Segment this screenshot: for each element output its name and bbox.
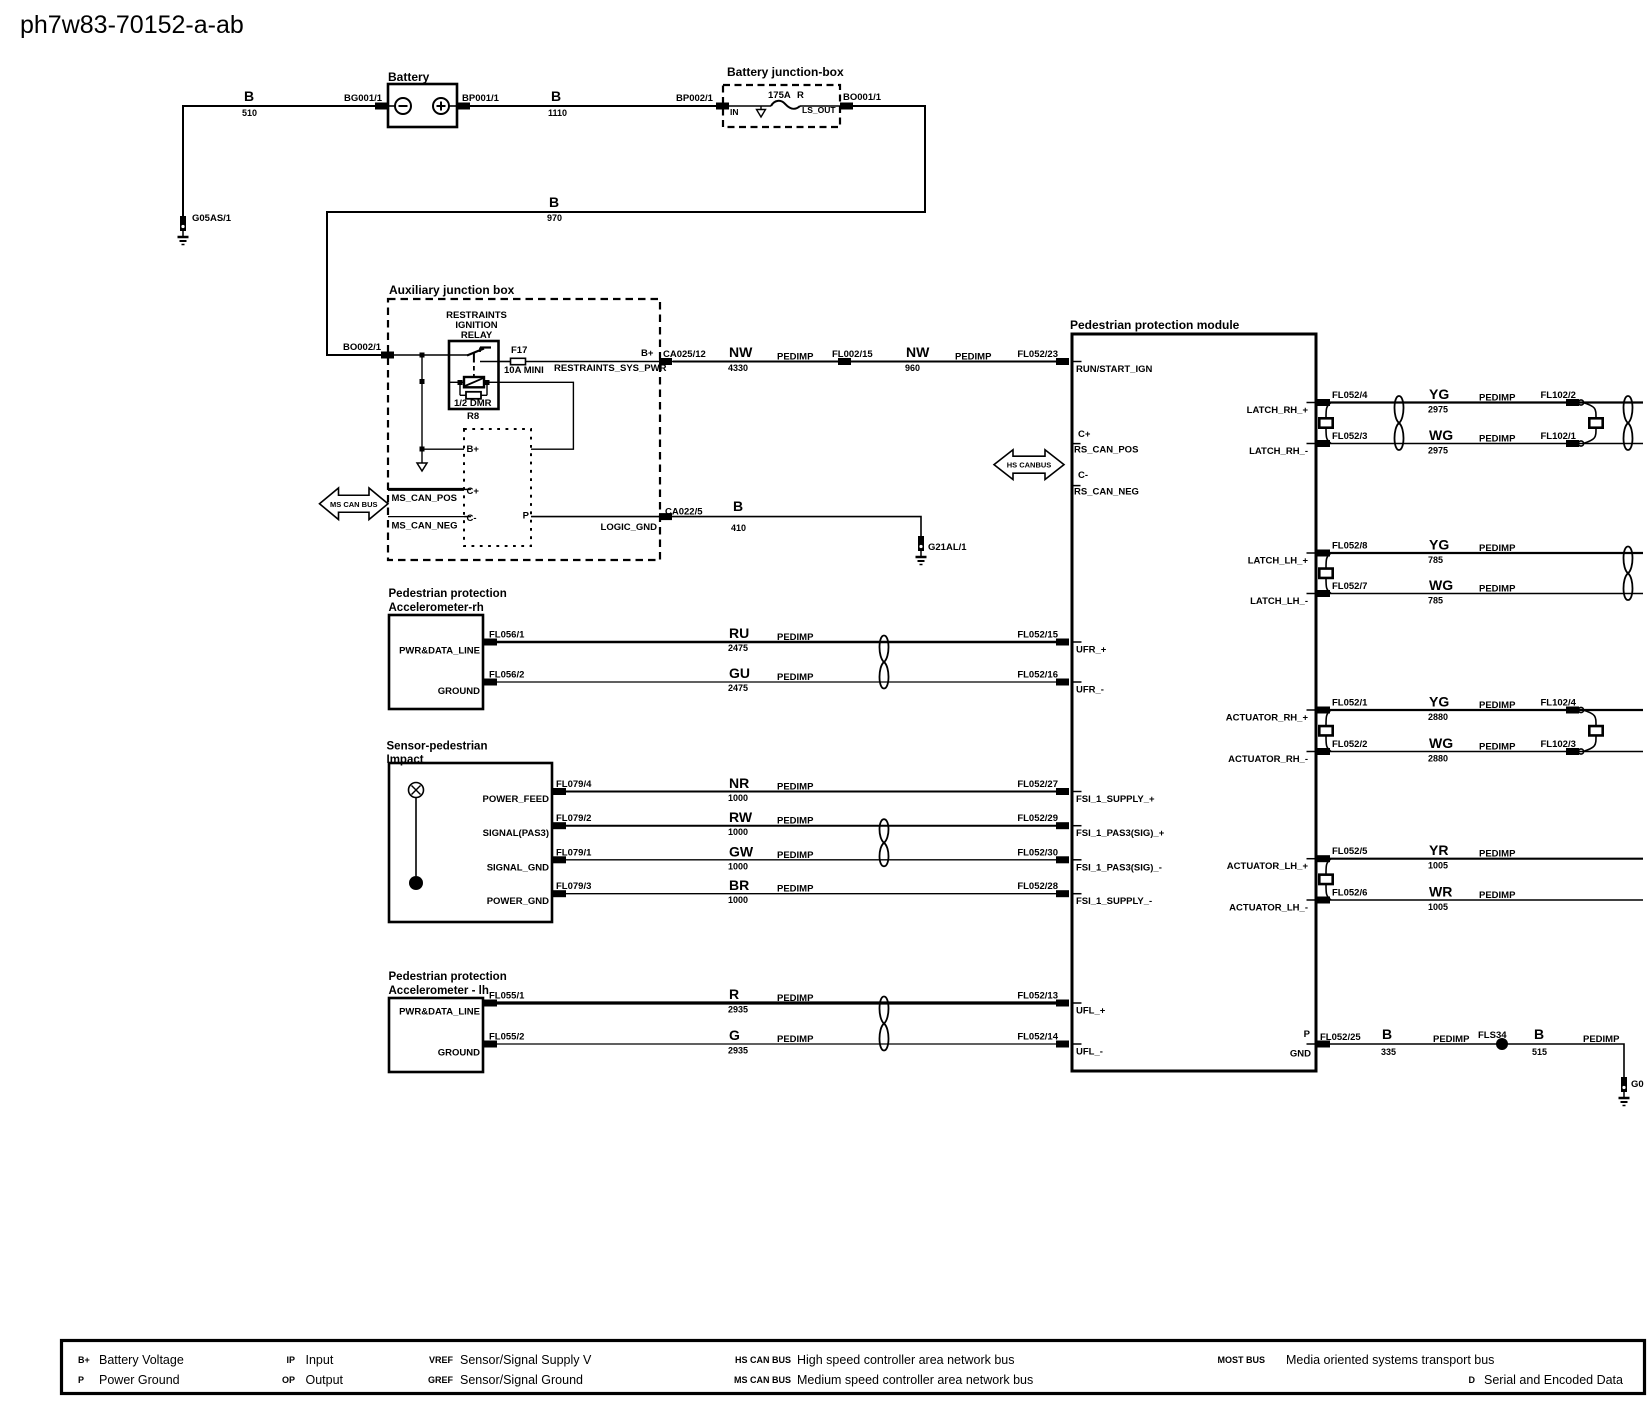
wire GU 2475 [497,681,1056,683]
svg-text:PEDIMP: PEDIMP [777,782,814,793]
wire WR 1005 [1330,899,1643,901]
svg-text:FL052/4: FL052/4 [1332,390,1368,401]
svg-text:LOGIC_GND: LOGIC_GND [601,522,658,533]
svg-text:PEDIMP: PEDIMP [955,352,992,363]
svg-text:POWER_FEED: POWER_FEED [482,794,549,805]
svg-text:IN: IN [730,107,739,117]
inner module (dotted) [464,429,531,546]
wire WG 785 [1330,593,1643,595]
svg-text:Sensor/Signal Supply V: Sensor/Signal Supply V [460,1353,592,1367]
svg-text:PEDIMP: PEDIMP [777,850,814,861]
svg-text:Medium speed controller area n: Medium speed controller area network bus [797,1373,1033,1387]
svg-text:P: P [78,1375,84,1385]
wire B 970 [327,106,925,355]
svg-text:MS CAN BUS: MS CAN BUS [734,1375,791,1385]
svg-text:PEDIMP: PEDIMP [1479,543,1516,554]
HS CAN BUS arrow [994,450,1064,480]
svg-text:FL052/23: FL052/23 [1017,349,1058,360]
pin LATCH_LH_+ [1307,552,1315,554]
svg-text:10A MINI: 10A MINI [504,365,544,376]
svg-text:Power Ground: Power Ground [99,1373,180,1387]
svg-text:UFL_+: UFL_+ [1076,1006,1106,1017]
svg-text:RESTRAINTS_SYS_PWR: RESTRAINTS_SYS_PWR [554,363,667,374]
wire B 1110 [470,105,723,107]
pin FSI_1_PAS3(SIG)_+ [1074,825,1082,827]
relay coil output to B+ pin [498,382,573,449]
svg-text:C-: C- [467,513,477,524]
svg-text:IP: IP [286,1355,295,1365]
svg-text:1000: 1000 [728,793,748,803]
svg-text:B+: B+ [78,1355,90,1365]
svg-text:MS CAN BUS: MS CAN BUS [330,500,378,509]
wire B 515 to ground [1502,1044,1624,1077]
svg-text:Pedestrian protection: Pedestrian protection [389,971,507,983]
svg-text:YR: YR [1429,842,1448,858]
wire to ground G05AS/1 [182,105,184,216]
battery positive terminal [433,98,449,114]
svg-text:UFL_-: UFL_- [1076,1047,1103,1058]
svg-text:BP002/1: BP002/1 [676,93,714,104]
wire BR 1000 [566,893,1056,895]
wire down to B+ [421,355,423,463]
svg-text:Battery junction-box: Battery junction-box [727,65,844,79]
svg-text:2935: 2935 [728,1005,748,1015]
svg-text:SIGNAL_GND: SIGNAL_GND [487,862,549,873]
svg-text:Sensor-pedestrian: Sensor-pedestrian [387,741,488,753]
svg-text:WG: WG [1429,427,1453,443]
svg-text:FL052/1: FL052/1 [1332,698,1368,709]
wire G 2935 [497,1043,1056,1045]
svg-text:B: B [1534,1026,1544,1042]
svg-text:PEDIMP: PEDIMP [777,1034,814,1045]
svg-text:OP: OP [282,1375,295,1385]
pin LATCH_LH_- [1307,593,1315,595]
svg-text:POWER_GND: POWER_GND [487,896,549,907]
wire B 510 battery to ground [183,105,381,107]
svg-text:SIGNAL(PAS3): SIGNAL(PAS3) [483,828,549,839]
svg-text:G05AS/1: G05AS/1 [192,213,232,224]
junction [420,379,425,384]
MS CAN BUS arrow [320,488,389,520]
svg-text:PEDIMP: PEDIMP [1479,890,1516,901]
svg-text:ph7w83-70152-a-ab: ph7w83-70152-a-ab [20,11,244,39]
svg-text:GROUND: GROUND [438,1048,480,1059]
svg-text:RELAY: RELAY [461,330,493,341]
svg-text:970: 970 [547,213,562,223]
svg-text:FL052/8: FL052/8 [1332,541,1367,552]
svg-text:1000: 1000 [728,861,748,871]
wire B 335 [1330,1043,1502,1045]
svg-text:510: 510 [242,108,257,118]
svg-text:VREF: VREF [429,1355,454,1365]
svg-text:B: B [549,194,559,210]
pin ACTUATOR_LH_+ [1307,858,1315,860]
svg-text:R: R [797,90,804,101]
svg-text:Output: Output [306,1373,344,1387]
svg-text:PEDIMP: PEDIMP [1583,1034,1620,1045]
svg-text:C+: C+ [1078,429,1091,440]
svg-text:Auxiliary junction box: Auxiliary junction box [389,283,515,297]
svg-text:FL052/30: FL052/30 [1017,847,1058,858]
svg-text:G21AL/1: G21AL/1 [928,542,967,553]
svg-text:P: P [523,511,530,522]
svg-text:2475: 2475 [728,683,748,693]
twisted pair [1623,396,1632,450]
svg-text:HS CANBUS: HS CANBUS [1007,461,1052,470]
svg-text:High speed controller area net: High speed controller area network bus [797,1353,1014,1367]
svg-text:B+: B+ [467,444,480,455]
wire R 2935 [497,1001,1056,1004]
svg-text:PEDIMP: PEDIMP [777,993,814,1004]
svg-text:PEDIMP: PEDIMP [1433,1034,1470,1045]
legend box [62,1341,1645,1394]
pin ACTUATOR_LH_- [1307,899,1315,901]
svg-text:785: 785 [1428,596,1443,606]
svg-text:785: 785 [1428,555,1443,565]
twisted pair [1394,396,1403,450]
battery voltage symbol (triangle) [760,106,762,110]
svg-text:WG: WG [1429,735,1453,751]
pin UFR_- [1074,681,1082,683]
svg-text:BR: BR [729,877,749,893]
connector shorting link [1319,403,1332,444]
pin ACTUATOR_RH_+ [1307,709,1315,711]
svg-text:410: 410 [731,523,746,533]
svg-text:FL052/3: FL052/3 [1332,431,1367,442]
svg-text:Sensor/Signal Ground: Sensor/Signal Ground [460,1373,583,1387]
svg-text:PEDIMP: PEDIMP [777,352,814,363]
relay switch [450,354,469,356]
svg-text:HS CAN BUS: HS CAN BUS [735,1355,791,1365]
svg-text:PEDIMP: PEDIMP [1479,434,1516,445]
pin UFL_+ [1074,1002,1082,1004]
connector shorting link [1319,859,1332,900]
wire YG 785 [1330,552,1643,554]
svg-text:ACTUATOR_RH_+: ACTUATOR_RH_+ [1226,713,1309,724]
svg-text:1000: 1000 [728,895,748,905]
svg-text:LATCH_RH_-: LATCH_RH_- [1249,446,1308,457]
svg-text:C-: C- [1078,470,1088,481]
svg-text:335: 335 [1381,1047,1396,1057]
svg-text:LATCH_LH_-: LATCH_LH_- [1250,596,1308,607]
svg-text:B: B [1382,1026,1392,1042]
svg-text:ACTUATOR_LH_+: ACTUATOR_LH_+ [1227,861,1309,872]
svg-text:D: D [1469,1375,1476,1385]
svg-text:PEDIMP: PEDIMP [777,672,814,683]
pin ACTUATOR_RH_- [1307,751,1315,753]
svg-text:2975: 2975 [1428,405,1448,415]
wire MS_CAN_NEG [388,516,464,518]
wire YG 2880 [1330,709,1643,711]
svg-text:G0: G0 [1631,1079,1644,1090]
svg-text:RS_CAN_POS: RS_CAN_POS [1074,445,1138,456]
svg-text:BO002/1: BO002/1 [343,342,382,353]
pin RUN/START_IGN [1074,361,1082,363]
svg-text:MS_CAN_POS: MS_CAN_POS [392,493,457,504]
svg-text:PEDIMP: PEDIMP [1479,849,1516,860]
svg-text:GW: GW [729,843,754,859]
ground G21AL/1 [916,536,968,565]
svg-text:WR: WR [1429,884,1452,900]
svg-text:2880: 2880 [1428,712,1448,722]
pin LATCH_RH_+ [1307,402,1315,404]
svg-text:NW: NW [906,344,930,360]
svg-text:UFR_-: UFR_- [1076,685,1104,696]
svg-text:FSI_1_SUPPLY_-: FSI_1_SUPPLY_- [1076,896,1152,907]
svg-text:PEDIMP: PEDIMP [1479,742,1516,753]
svg-text:RS_CAN_NEG: RS_CAN_NEG [1074,487,1139,498]
wire YR 1005 [1330,858,1643,860]
svg-text:FL052/14: FL052/14 [1017,1032,1058,1043]
pin C+ [464,488,471,490]
svg-text:B: B [551,88,561,104]
pin B+ [422,448,464,450]
svg-text:BG001/1: BG001/1 [344,93,383,104]
wire WG 2975 [1330,443,1643,445]
svg-text:B: B [244,88,254,104]
fuse 175A R [771,101,800,109]
svg-text:B: B [733,498,743,514]
svg-text:RUN/START_IGN: RUN/START_IGN [1076,364,1152,375]
svg-text:Media oriented systems transpo: Media oriented systems transport bus [1286,1353,1494,1367]
wire NR 1000 [566,791,1056,793]
pin UFL_- [1074,1043,1082,1045]
svg-text:GND: GND [1290,1049,1311,1060]
svg-text:UFR_+: UFR_+ [1076,645,1107,656]
svg-text:175A: 175A [768,90,791,101]
svg-text:FL052/28: FL052/28 [1017,881,1058,892]
svg-text:WG: WG [1429,577,1453,593]
svg-text:YG: YG [1429,386,1449,402]
svg-text:Battery: Battery [388,70,430,84]
svg-text:960: 960 [905,363,920,373]
svg-text:G: G [729,1027,740,1043]
svg-text:515: 515 [1532,1047,1547,1057]
svg-text:BO001/1: BO001/1 [843,92,882,103]
connector BP001/1 [457,103,470,110]
svg-text:FL052/5: FL052/5 [1332,846,1368,857]
svg-text:P: P [1304,1029,1311,1040]
svg-text:Serial and Encoded Data: Serial and Encoded Data [1484,1373,1623,1387]
relay coil 1/2 DMR [450,381,464,383]
ground G06AT/1 [1619,1077,1644,1106]
svg-text:Battery Voltage: Battery Voltage [99,1353,184,1367]
relay suppression resistor [459,382,461,395]
twisted pair [879,819,888,866]
svg-text:FL052/2: FL052/2 [1332,739,1367,750]
svg-text:GROUND: GROUND [438,686,480,697]
svg-text:YG: YG [1429,537,1449,553]
wire RU 2475 [497,641,1056,643]
pin FSI_1_PAS3(SIG)_- [1074,859,1082,861]
battery negative terminal [389,105,395,107]
svg-text:Input: Input [306,1353,334,1367]
connector shorting link [1583,710,1603,752]
svg-text:2475: 2475 [728,643,748,653]
svg-text:LATCH_LH_+: LATCH_LH_+ [1248,556,1309,567]
twisted pair [879,636,888,689]
pin LATCH_RH_- [1307,443,1315,445]
svg-text:Accelerometer-rh: Accelerometer-rh [389,602,484,614]
fuse F17 10A MINI [498,361,511,363]
svg-text:R8: R8 [467,411,479,422]
svg-text:NR: NR [729,775,749,791]
wire MS_CAN_POS [388,488,464,491]
svg-text:Pedestrian protection module: Pedestrian protection module [1070,318,1240,332]
svg-text:PWR&DATA_LINE: PWR&DATA_LINE [399,1007,480,1018]
svg-text:BP001/1: BP001/1 [462,93,500,104]
svg-text:PEDIMP: PEDIMP [777,816,814,827]
svg-text:2880: 2880 [1428,754,1448,764]
wire GW 1000 [566,859,1056,861]
svg-text:RW: RW [729,809,753,825]
svg-text:1000: 1000 [728,827,748,837]
svg-text:MOST BUS: MOST BUS [1217,1355,1265,1365]
svg-text:PEDIMP: PEDIMP [777,884,814,895]
svg-text:1/2 DMR: 1/2 DMR [454,398,492,409]
svg-text:LATCH_RH_+: LATCH_RH_+ [1247,405,1309,416]
pin FSI_1_SUPPLY_+ [1074,791,1082,793]
battery voltage symbol (triangle) [417,463,427,471]
svg-text:YG: YG [1429,694,1449,710]
twisted pair [879,997,888,1051]
svg-text:Accelerometer - lh: Accelerometer - lh [389,985,489,997]
svg-text:FL052/16: FL052/16 [1017,670,1058,681]
svg-text:2935: 2935 [728,1046,748,1056]
pin UFR_+ [1074,641,1082,643]
svg-text:PEDIMP: PEDIMP [777,632,814,643]
junction [420,353,425,358]
svg-text:FL052/15: FL052/15 [1017,630,1058,641]
wire WG 2880 [1330,751,1643,753]
svg-text:1005: 1005 [1428,902,1448,912]
svg-text:GU: GU [729,665,750,681]
svg-text:PEDIMP: PEDIMP [1479,393,1516,404]
svg-text:GREF: GREF [428,1375,454,1385]
wire NW 4330 [673,361,1056,363]
junction [420,447,425,452]
svg-text:Pedestrian protection: Pedestrian protection [389,588,507,600]
svg-text:1005: 1005 [1428,861,1448,871]
svg-text:FSI_1_SUPPLY_+: FSI_1_SUPPLY_+ [1076,794,1155,805]
svg-text:FL052/6: FL052/6 [1332,888,1367,899]
svg-text:R: R [729,986,739,1002]
impact sensor symbol [409,783,424,798]
wire LOGIC_GND [531,516,673,518]
wire B 410 to ground [673,517,921,536]
connector shorting link [1583,403,1603,444]
ground G05AS/1 [178,213,232,245]
pin FSI_1_SUPPLY_- [1074,893,1082,895]
svg-text:FSI_1_PAS3(SIG)_+: FSI_1_PAS3(SIG)_+ [1076,828,1165,839]
svg-text:4330: 4330 [728,363,748,373]
svg-text:FSI_1_PAS3(SIG)_-: FSI_1_PAS3(SIG)_- [1076,862,1162,873]
pin P GND [1307,1043,1315,1045]
svg-text:FL052/27: FL052/27 [1017,779,1058,790]
svg-text:RU: RU [729,625,749,641]
svg-text:1110: 1110 [548,108,567,118]
svg-text:MS_CAN_NEG: MS_CAN_NEG [392,520,458,531]
svg-text:2975: 2975 [1428,446,1448,456]
connector shorting link [1319,710,1332,752]
wire to relay [394,354,450,356]
pin C- [464,516,471,518]
svg-text:PEDIMP: PEDIMP [1479,700,1516,711]
svg-text:PWR&DATA_LINE: PWR&DATA_LINE [399,646,480,657]
wire RESTRAINTS_SYS_PWR [526,361,674,363]
connector shorting link [1319,553,1332,594]
svg-text:PEDIMP: PEDIMP [1479,584,1516,595]
svg-text:ACTUATOR_RH_-: ACTUATOR_RH_- [1228,754,1308,765]
svg-text:F17: F17 [511,345,527,356]
svg-text:FL052/13: FL052/13 [1017,991,1058,1002]
svg-text:B+: B+ [641,348,654,359]
twisted pair [1623,547,1632,601]
svg-text:C+: C+ [467,486,480,497]
wire YG 2975 [1330,401,1643,403]
svg-text:FL052/7: FL052/7 [1332,581,1367,592]
node IN [729,105,771,107]
wire RW 1000 [566,825,1056,827]
svg-text:NW: NW [729,344,753,360]
connector BO001/1 [840,103,853,110]
svg-text:ACTUATOR_LH_-: ACTUATOR_LH_- [1229,903,1308,914]
svg-text:FL052/29: FL052/29 [1017,813,1058,824]
